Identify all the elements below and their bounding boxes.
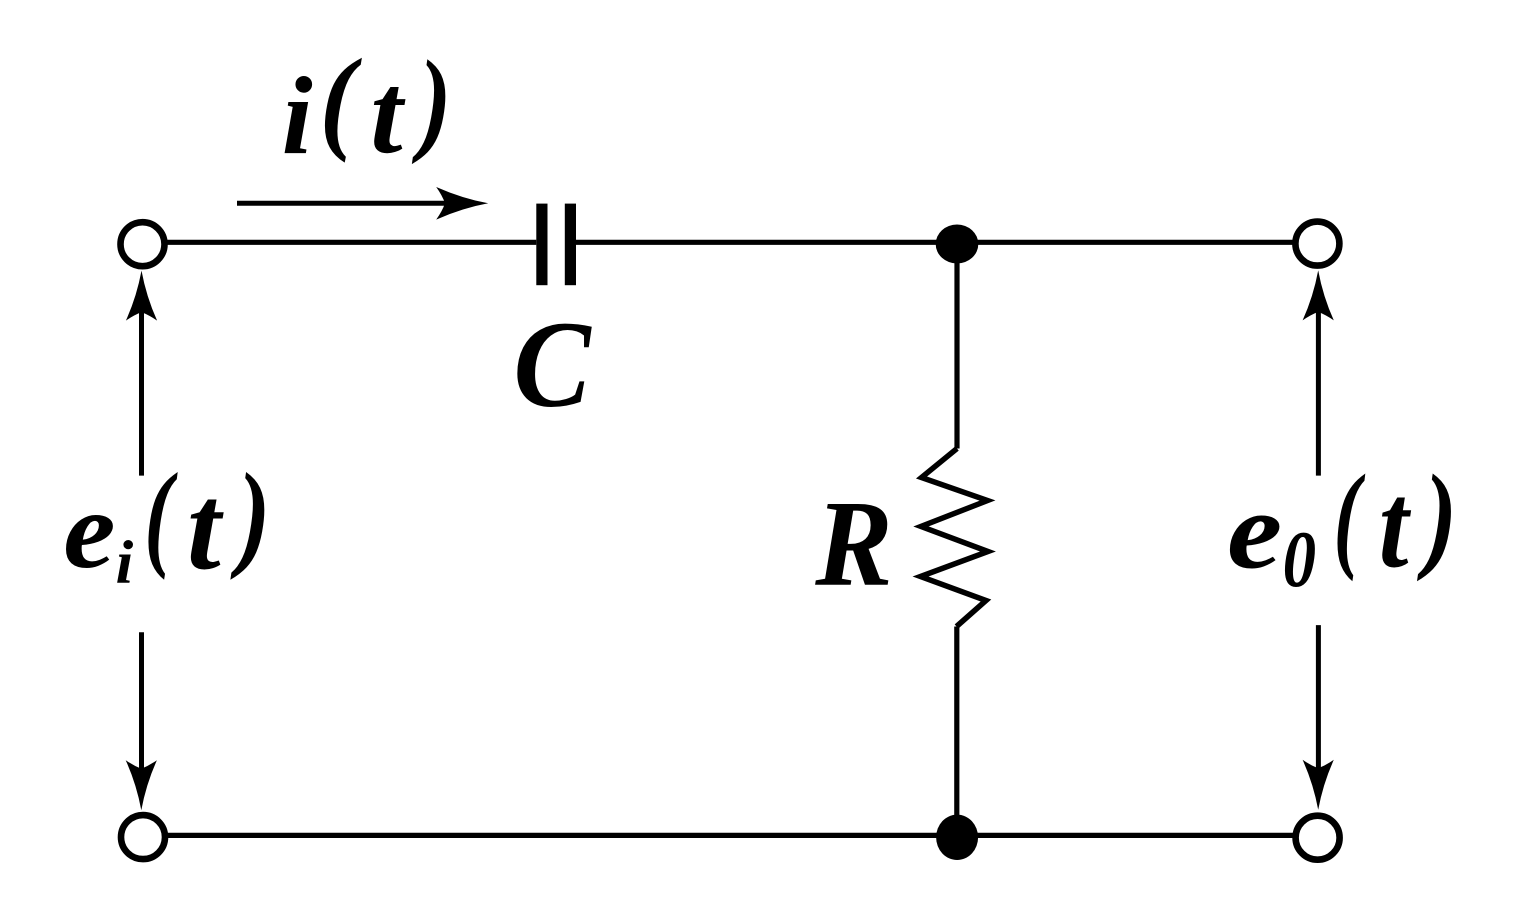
svg-text:): ) xyxy=(412,38,452,166)
svg-text:C: C xyxy=(513,295,592,432)
voltage arrow eo down shaft xyxy=(1316,625,1321,775)
svg-text:R: R xyxy=(814,474,892,611)
svg-text:(: ( xyxy=(320,37,362,164)
node junction dot top xyxy=(936,225,979,264)
node junction dot bottom xyxy=(936,815,978,860)
voltage arrow ei down head xyxy=(126,760,157,810)
wire bottom xyxy=(145,833,1295,838)
resistor R zigzag xyxy=(921,449,989,627)
voltage arrow ei down shaft xyxy=(139,632,144,775)
svg-text:t: t xyxy=(370,50,406,178)
voltage arrow eo up shaft xyxy=(1316,285,1321,476)
svg-text:e: e xyxy=(1227,470,1282,592)
current arrow i(t) shaft xyxy=(237,201,450,206)
capacitor C plates xyxy=(536,204,576,286)
terminal bottom-right xyxy=(1296,816,1340,860)
terminal top-right xyxy=(1295,222,1339,266)
svg-text:e: e xyxy=(63,469,115,592)
voltage arrow eo down head xyxy=(1303,760,1334,810)
svg-text:): ) xyxy=(230,449,271,581)
voltage arrow eo up head xyxy=(1303,270,1334,320)
svg-text:i: i xyxy=(282,56,313,179)
terminal top-left xyxy=(121,222,165,266)
svg-text:i: i xyxy=(116,528,134,596)
svg-text:t: t xyxy=(187,462,224,596)
wire top-left segment xyxy=(145,240,536,245)
wire resistor bottom lead xyxy=(954,627,959,839)
voltage arrow ei up shaft xyxy=(139,285,144,476)
terminal bottom-left xyxy=(121,815,165,859)
svg-text:t: t xyxy=(1379,458,1412,593)
wire resistor top lead xyxy=(954,242,959,449)
svg-text:(: ( xyxy=(1334,451,1366,583)
voltage arrow ei up head xyxy=(126,271,157,321)
current arrow i(t) head xyxy=(436,187,488,220)
svg-text:(: ( xyxy=(144,450,178,581)
wire top-right segment xyxy=(576,240,1295,245)
svg-text:0: 0 xyxy=(1283,515,1316,604)
svg-text:): ) xyxy=(1416,450,1457,582)
